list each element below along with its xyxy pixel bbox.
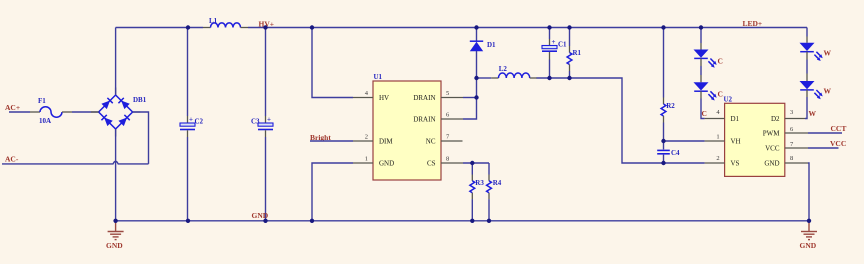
- wire HV rail left segment: [116, 27, 203, 29]
- capacitor C3: [251, 28, 273, 221]
- svg-text:3: 3: [790, 109, 793, 116]
- wire right LED string to U2 D2 pin: [806, 90, 808, 97]
- svg-text:GND: GND: [800, 241, 817, 250]
- svg-text:R2: R2: [666, 102, 675, 110]
- svg-text:L2: L2: [499, 65, 508, 73]
- svg-text:8: 8: [790, 155, 793, 162]
- svg-text:AC-: AC-: [5, 155, 19, 164]
- LED warm white 2: [800, 81, 823, 99]
- junction rail D1: [474, 25, 478, 29]
- svg-text:1: 1: [365, 156, 368, 163]
- IC U1: [353, 73, 463, 180]
- svg-text:10A: 10A: [39, 117, 51, 125]
- svg-text:C4: C4: [671, 149, 680, 157]
- junction VH C4: [661, 139, 665, 143]
- svg-text:R4: R4: [493, 179, 502, 187]
- wire CS pin8 to R3 R4: [463, 162, 489, 164]
- svg-text:5: 5: [446, 90, 449, 97]
- junction VS C4: [661, 161, 665, 165]
- wire HV rail right segment: [248, 27, 807, 29]
- wire DB1 plus output up to HV rail: [115, 28, 117, 96]
- svg-text:+: +: [189, 116, 193, 124]
- svg-text:C3: C3: [251, 118, 260, 126]
- svg-text:U1: U1: [374, 73, 383, 81]
- svg-text:CS: CS: [427, 160, 436, 168]
- capacitor C2: [180, 28, 204, 221]
- fuse F1: [30, 97, 72, 117]
- svg-text:GND: GND: [379, 160, 394, 168]
- svg-text:2: 2: [716, 155, 719, 162]
- wire left LED string top: [700, 28, 702, 44]
- wire U1 GND pin to bus: [312, 163, 353, 221]
- wire AC- with hop over gnd wire: [2, 161, 149, 164]
- svg-text:NC: NC: [426, 138, 436, 146]
- LED cool white 2: [694, 82, 717, 100]
- wire PWM to CCT: [808, 132, 842, 134]
- svg-text:VCC: VCC: [765, 145, 780, 153]
- svg-text:W: W: [824, 87, 832, 96]
- junction bus C2: [186, 219, 190, 223]
- LED warm white 1: [800, 43, 823, 61]
- diode D1: [470, 28, 496, 98]
- svg-text:GND: GND: [106, 241, 123, 250]
- IC U2: [705, 96, 808, 177]
- svg-text:F1: F1: [38, 97, 46, 105]
- gnd bus wire: [116, 220, 809, 222]
- svg-text:VCC: VCC: [830, 139, 846, 148]
- junction DRAIN node: [474, 95, 478, 99]
- capacitor C4: [657, 141, 680, 163]
- junction CS R3: [470, 161, 474, 165]
- wire C4 R2 to U2 VH pin: [664, 140, 705, 142]
- junction R1 node: [567, 76, 571, 80]
- svg-text:W: W: [824, 48, 832, 57]
- svg-text:PWM: PWM: [763, 130, 781, 138]
- wire left LED string to U2 D1 pin: [700, 91, 702, 98]
- svg-text:U2: U2: [724, 96, 733, 104]
- LED cool white 1: [694, 50, 717, 68]
- inductor L2: [477, 65, 538, 78]
- junction rail R1: [567, 25, 571, 29]
- bridge rectifier DB1: [91, 88, 147, 137]
- wire AC- up to DB1 right corner: [133, 112, 149, 164]
- svg-text:2: 2: [365, 134, 368, 141]
- svg-text:DIM: DIM: [379, 138, 393, 146]
- wire VCC: [808, 147, 839, 149]
- junction bus U1 GND: [310, 219, 314, 223]
- junction rail C3: [263, 25, 267, 29]
- resistor R3: [470, 163, 484, 221]
- junction bus R3: [470, 219, 474, 223]
- svg-text:W: W: [809, 109, 817, 118]
- resistor R4: [487, 163, 502, 221]
- svg-text:DRAIN: DRAIN: [413, 94, 435, 102]
- wire DRAIN pin5 to node: [463, 97, 477, 99]
- svg-text:C: C: [718, 90, 723, 99]
- resistor R2: [661, 28, 675, 142]
- svg-text:C: C: [702, 109, 707, 118]
- svg-text:VH: VH: [731, 138, 741, 146]
- junction rail left LED string: [699, 25, 703, 29]
- junction rail C2: [186, 25, 190, 29]
- junction bus C3: [263, 219, 267, 223]
- svg-text:GND: GND: [764, 160, 779, 168]
- svg-text:R1: R1: [573, 49, 582, 57]
- svg-text:D1: D1: [731, 115, 740, 123]
- resistor R1: [567, 28, 581, 79]
- svg-text:+: +: [267, 116, 271, 124]
- ground symbol right: [800, 221, 818, 250]
- capacitor C1: [542, 28, 567, 79]
- svg-text:D2: D2: [771, 115, 780, 123]
- svg-text:L1: L1: [209, 17, 218, 25]
- svg-text:C1: C1: [558, 41, 567, 49]
- inductor L1: [203, 17, 248, 28]
- svg-text:DB1: DB1: [133, 96, 147, 104]
- svg-text:8: 8: [446, 156, 449, 163]
- svg-text:C: C: [718, 57, 723, 66]
- junction rail R2: [661, 25, 665, 29]
- wire between right LEDs: [806, 52, 808, 60]
- svg-text:AC+: AC+: [5, 103, 20, 112]
- svg-text:LED+: LED+: [743, 19, 763, 28]
- svg-text:HV: HV: [379, 94, 389, 102]
- junction rail U1 HV: [310, 25, 314, 29]
- junction C1 node: [547, 76, 551, 80]
- wire HV rail to U1 HV pin: [312, 28, 353, 98]
- svg-text:C2: C2: [195, 118, 204, 126]
- wire AC+ to F1: [9, 111, 30, 113]
- ground symbol left: [106, 221, 124, 250]
- junction D1 L2 node: [474, 76, 478, 80]
- wire between left LEDs: [700, 58, 702, 66]
- junction bus R4: [487, 219, 491, 223]
- svg-text:GND: GND: [252, 211, 269, 220]
- svg-text:1: 1: [716, 134, 719, 141]
- junction rail C1: [547, 25, 551, 29]
- wire DRAIN pin6 to node: [463, 98, 477, 120]
- wire Bright to U1 DIM pin: [310, 140, 353, 142]
- svg-text:DRAIN: DRAIN: [413, 116, 435, 124]
- wire F1 to DB1: [72, 111, 99, 113]
- svg-text:VS: VS: [731, 160, 740, 168]
- svg-text:D1: D1: [487, 41, 496, 49]
- svg-text:CCT: CCT: [831, 124, 847, 133]
- wire L2 to VH branch: [537, 78, 705, 163]
- wire U2 GND pin down to bus: [808, 163, 809, 221]
- svg-text:+: +: [552, 38, 556, 46]
- wire HV rail corner down to right LED string: [806, 28, 808, 37]
- junction bus bridge: [113, 219, 117, 223]
- svg-text:R3: R3: [475, 179, 484, 187]
- junction bus right gnd: [807, 219, 811, 223]
- wire DB1 minus output down to GND bus: [115, 129, 117, 221]
